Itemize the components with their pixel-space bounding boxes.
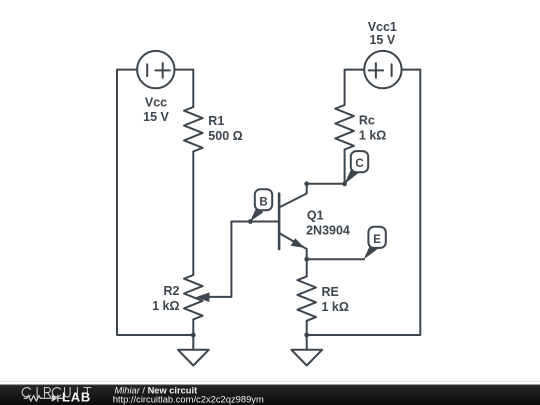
junction node RE bottom <box>304 333 309 338</box>
wire Vcc to R1 <box>175 70 194 107</box>
CircuitLab logo wordmark CIRCUIT <box>22 388 91 398</box>
svg-text:15 V: 15 V <box>143 110 169 124</box>
R2 wiper arrow <box>196 292 210 302</box>
svg-text:Rc: Rc <box>359 113 375 127</box>
voltage source Vcc1 <box>364 51 401 88</box>
wire RE bottom <box>306 321 308 335</box>
ground (left) <box>178 335 209 366</box>
voltage source Vcc <box>137 51 174 88</box>
svg-text:E: E <box>373 234 381 246</box>
wire emitter node <box>307 258 364 260</box>
wire emitter to RE <box>306 259 308 276</box>
CircuitLab logo resistor-diode wire <box>24 395 63 402</box>
svg-text:RE: RE <box>322 285 339 299</box>
wire R1 to R2 <box>192 152 194 276</box>
wire base <box>231 221 278 223</box>
svg-text:Vcc1: Vcc1 <box>368 20 397 34</box>
node C label <box>344 151 368 184</box>
svg-text:15 V: 15 V <box>369 33 395 47</box>
wire R2 to ground junction <box>192 319 194 335</box>
wire Vcc1 right outer loop <box>309 70 421 335</box>
svg-text:2N3904: 2N3904 <box>306 224 350 238</box>
resistor R1 <box>184 107 203 152</box>
resistor Rc <box>335 105 354 150</box>
node E label <box>364 227 386 260</box>
ground (right) <box>291 335 322 366</box>
resistor RE <box>297 276 316 320</box>
junction node base <box>248 219 253 224</box>
svg-text:Q1: Q1 <box>307 209 324 223</box>
svg-text:R2: R2 <box>164 284 180 298</box>
svg-text:500 Ω: 500 Ω <box>208 129 242 143</box>
transistor Q1 <box>279 184 307 259</box>
svg-text:Vcc: Vcc <box>145 95 167 109</box>
R2 wiper wire <box>209 222 231 297</box>
footer bar <box>0 385 540 405</box>
wire left outer loop <box>117 70 191 335</box>
junction node emitter <box>304 257 309 262</box>
potentiometer R2 <box>184 275 203 319</box>
wire Vcc1 to Rc <box>345 70 365 105</box>
svg-text:R1: R1 <box>208 114 224 128</box>
svg-text:1 kΩ: 1 kΩ <box>359 128 386 142</box>
wire Rc to collector junction <box>344 150 346 184</box>
svg-text:http://circuitlab.com/c2x2c2qz: http://circuitlab.com/c2x2c2qz989ym <box>113 394 264 405</box>
svg-text:1 kΩ: 1 kΩ <box>152 299 179 313</box>
svg-text:B: B <box>259 196 267 208</box>
wire collector horizontal <box>307 183 345 185</box>
svg-text:1 kΩ: 1 kΩ <box>322 300 349 314</box>
svg-text:LAB: LAB <box>62 390 91 405</box>
footer divider line <box>0 381 540 382</box>
junction node collector <box>304 181 309 186</box>
svg-text:C: C <box>355 158 363 170</box>
node B label <box>250 189 272 221</box>
junction node Rc bottom <box>342 181 347 186</box>
junction node R2 bottom <box>191 333 196 338</box>
